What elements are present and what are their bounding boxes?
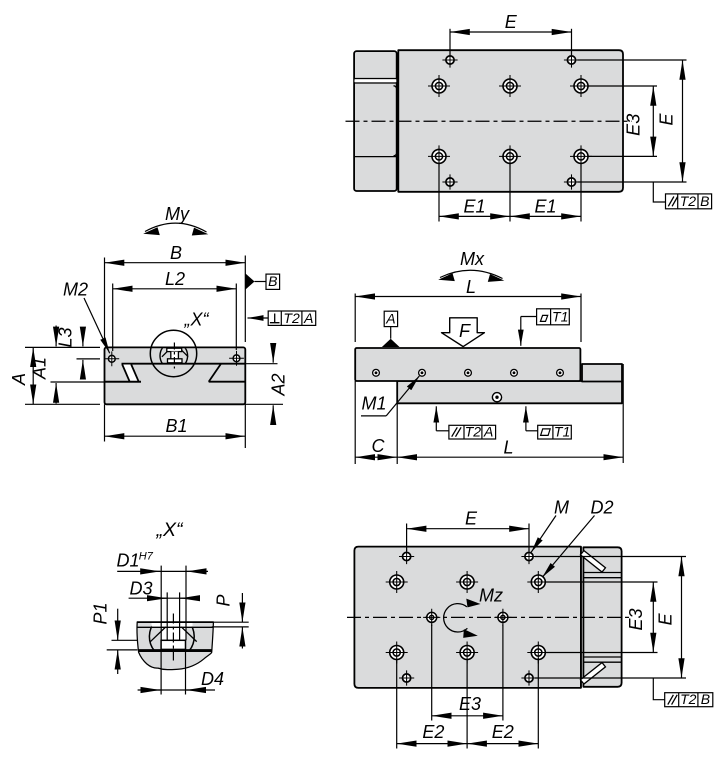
front view M2 hole right bbox=[229, 351, 244, 366]
bottom view mounting hole at (396.7,582) bbox=[386, 571, 408, 593]
dimension B bbox=[104, 258, 106, 343]
top view main plate bbox=[398, 50, 623, 192]
bottom view mounting hole at (467.1,652.5) bbox=[456, 642, 478, 664]
svg-text:„X“: „X“ bbox=[156, 519, 185, 541]
top view mounting hole at (581,86) bbox=[570, 75, 592, 97]
datum feature symbol B bbox=[246, 274, 255, 290]
dimension E3 (right side of bottom view) bbox=[546, 581, 658, 583]
detail white band below surface (inside bore) bbox=[152, 623, 193, 627]
dimension A1 bbox=[55, 326, 57, 347]
top view small hole at (450,182) bbox=[442, 174, 457, 189]
front view T-slot mini profile: clipped circle bbox=[160, 342, 188, 370]
detail nut rectangle (white) bbox=[161, 640, 185, 649]
svg-text:Mx: Mx bbox=[460, 249, 485, 269]
detail blob body bbox=[137, 622, 213, 669]
bottom view main plate bbox=[354, 547, 581, 688]
feature control frame perpendicular|T2|A bbox=[248, 317, 269, 319]
side view carriage hole 2 bbox=[419, 369, 426, 376]
feature control frame //|T2|A (lower) bbox=[435, 406, 437, 431]
dimension E (top of bottom view) bbox=[406, 524, 408, 552]
svg-text:A: A bbox=[9, 373, 29, 386]
mini profile nut bar (white) bbox=[168, 359, 183, 363]
front view right notch slant bbox=[209, 364, 221, 382]
detail D3 screw verticals bbox=[166, 592, 168, 640]
front view slot bottom line left bbox=[51, 381, 142, 383]
svg-text:E1: E1 bbox=[534, 196, 556, 216]
dimension E (right side of bottom view) bbox=[535, 556, 686, 558]
svg-text:P: P bbox=[214, 594, 234, 606]
bottom view center hole right bbox=[494, 609, 511, 626]
svg-text:L: L bbox=[466, 277, 476, 297]
dimension A2 bbox=[245, 403, 283, 405]
detail slot bottom thick line bbox=[139, 649, 213, 652]
bottom view small hole at (406.6,556.5) bbox=[399, 549, 414, 564]
block diagonal slot top bbox=[584, 554, 601, 568]
svg-text:E: E bbox=[656, 612, 676, 625]
detail lip line bbox=[137, 626, 214, 628]
svg-text:E1: E1 bbox=[463, 196, 485, 216]
front view left gib notch (white slot) bbox=[122, 365, 138, 382]
mini profile screw column (white) bbox=[171, 352, 179, 359]
bottom view mounting hole at (538.3,652.5) bbox=[527, 642, 549, 664]
detail top surface line bbox=[137, 621, 214, 623]
side view base plate bbox=[397, 381, 622, 403]
top view small hole at (571.5,60) bbox=[564, 52, 579, 67]
svg-text:A: A bbox=[303, 310, 313, 326]
detail white bore pocket bbox=[162, 628, 187, 641]
svg-text:E: E bbox=[465, 509, 478, 529]
hole centerline extension left bbox=[77, 358, 101, 360]
top view small hole at (571.5,182) bbox=[564, 174, 579, 189]
dimension B1 bbox=[104, 404, 106, 441]
svg-text:M1: M1 bbox=[361, 394, 386, 414]
side view carriage hole 5 bbox=[557, 369, 564, 376]
mini profile top bar (white) bbox=[167, 348, 182, 351]
svg-text:T2: T2 bbox=[680, 691, 697, 707]
svg-text:B: B bbox=[700, 193, 709, 209]
dimension E3 (right side of top view) bbox=[588, 85, 657, 87]
dimension L3 bbox=[82, 331, 84, 346]
feature control frame //|T2|B (top view) bbox=[653, 182, 665, 202]
bottom view mounting hole at (538.3,582) bbox=[527, 571, 549, 593]
dimension L (top of side view) bbox=[354, 294, 356, 343]
side view carriage hole 3 bbox=[465, 369, 472, 376]
svg-text:P1: P1 bbox=[91, 602, 111, 624]
svg-text:B: B bbox=[268, 273, 277, 289]
datum feature symbol A bbox=[382, 339, 400, 347]
svg-text:A: A bbox=[483, 423, 493, 439]
detail D1 edge verticals bbox=[160, 566, 162, 641]
svg-text:M2: M2 bbox=[63, 280, 88, 300]
svg-text:E3: E3 bbox=[624, 114, 644, 136]
svg-text:E2: E2 bbox=[422, 722, 444, 742]
top view mounting hole at (439,86) bbox=[428, 75, 450, 97]
svg-text:Mz: Mz bbox=[479, 586, 503, 606]
bottom view centerline bbox=[347, 616, 632, 618]
svg-text:My: My bbox=[165, 204, 190, 224]
svg-text:D3: D3 bbox=[129, 579, 152, 599]
detail bubble circle X bbox=[150, 330, 196, 376]
bottom view small hole at (529,556.5) bbox=[521, 549, 536, 564]
bottom view center hole left bbox=[423, 609, 440, 626]
svg-text:A: A bbox=[385, 310, 395, 326]
top view small hole at (450,60) bbox=[442, 52, 457, 67]
block inner double lines top bbox=[583, 572, 621, 574]
block inner double lines bottom bbox=[583, 656, 621, 658]
svg-text:T2: T2 bbox=[680, 193, 697, 209]
svg-text:E3: E3 bbox=[459, 694, 481, 714]
side view carriage bbox=[355, 348, 580, 381]
bottom view small hole at (406.6,678) bbox=[399, 670, 414, 685]
front view dovetail joint line bbox=[122, 363, 246, 365]
top view centerline bbox=[346, 120, 633, 122]
svg-text:D1: D1 bbox=[116, 551, 139, 571]
svg-text:L3: L3 bbox=[56, 327, 76, 347]
svg-text:L2: L2 bbox=[165, 269, 185, 289]
top view mounting hole at (510,156.4) bbox=[499, 145, 521, 167]
svg-text:F: F bbox=[459, 321, 471, 341]
front view slot bottom line right bbox=[209, 381, 246, 383]
svg-text:A2: A2 bbox=[269, 373, 289, 396]
block diagonal slot bottom bbox=[584, 666, 601, 680]
detail hatch lines bbox=[150, 627, 166, 642]
feature control frame flatness|T1 (upper) bbox=[521, 316, 537, 318]
svg-text:C: C bbox=[372, 436, 386, 456]
dimension E (right side of top view) bbox=[578, 59, 687, 61]
svg-text:T1: T1 bbox=[554, 423, 570, 439]
dimension E1 E1 (bottom of top view) bbox=[438, 163, 440, 222]
svg-text:E3: E3 bbox=[626, 608, 646, 630]
svg-text:T1: T1 bbox=[552, 309, 568, 325]
dimension E (top, horizontal) bbox=[449, 29, 451, 56]
top view mounting hole at (439,156.4) bbox=[428, 145, 450, 167]
svg-text:E: E bbox=[505, 12, 518, 32]
dimension A bbox=[25, 346, 100, 348]
svg-text:M: M bbox=[554, 498, 569, 518]
svg-text:E: E bbox=[657, 113, 677, 126]
A2 extension of joint line bbox=[245, 363, 277, 365]
svg-text:B: B bbox=[170, 243, 182, 263]
svg-text:E2: E2 bbox=[492, 722, 514, 742]
bottom view mounting hole at (396.7,652.5) bbox=[386, 642, 408, 664]
mini profile vertical centerline bbox=[173, 343, 175, 369]
force arrow F bbox=[442, 318, 485, 347]
side view end block bbox=[582, 364, 622, 382]
detail vertical centerline bbox=[172, 614, 174, 661]
top view mounting hole at (581,156.4) bbox=[570, 145, 592, 167]
front view M2 hole left bbox=[104, 351, 119, 366]
mini profile hatch lines bbox=[162, 350, 169, 357]
svg-text:B: B bbox=[701, 691, 710, 707]
bottom view small hole at (529,678) bbox=[521, 670, 536, 685]
dimension E2 E2 bbox=[396, 660, 398, 749]
svg-text:L: L bbox=[503, 438, 513, 458]
top view motor block double line bbox=[355, 79, 397, 82]
svg-text:A1: A1 bbox=[30, 357, 50, 380]
feature control frame //|T2|B (bottom view) bbox=[653, 678, 664, 700]
side view carriage hole 1 bbox=[373, 369, 380, 376]
detail bore circle (clipped) bbox=[149, 614, 194, 659]
side view carriage hole 4 bbox=[511, 369, 518, 376]
feature control frame flatness|T1 (lower) bbox=[525, 406, 527, 431]
svg-text:B1: B1 bbox=[165, 416, 187, 436]
svg-text:D2: D2 bbox=[590, 498, 613, 518]
top view motor end block bbox=[354, 51, 397, 191]
front view body cross-section bbox=[105, 347, 246, 404]
top view block corner fillet marks bbox=[394, 86, 397, 89]
bottom view mounting hole at (467.1,582) bbox=[456, 571, 478, 593]
dimension L2 bbox=[112, 284, 114, 352]
top view motor block lower line bbox=[354, 156, 397, 158]
top view mounting hole at (510,86) bbox=[499, 75, 521, 97]
side view base center hole bbox=[492, 393, 501, 402]
dimension L (bottom of side view) bbox=[622, 364, 624, 463]
svg-text:„X“: „X“ bbox=[184, 310, 210, 330]
dimension E3 (bottom of bottom view) bbox=[431, 625, 433, 721]
svg-text:H7: H7 bbox=[139, 551, 154, 563]
bottom view clamping end block bbox=[583, 547, 621, 687]
svg-text:T2: T2 bbox=[283, 310, 300, 326]
svg-text:D4: D4 bbox=[201, 669, 224, 689]
svg-text:T2: T2 bbox=[465, 423, 482, 439]
dimension C bbox=[354, 381, 356, 464]
